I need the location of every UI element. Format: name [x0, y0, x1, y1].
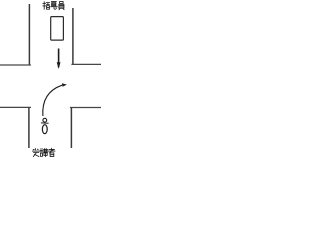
down arrow shaft	[58, 49, 60, 68]
label 受講者 (trainee) bottom text	[32, 148, 55, 156]
person arms crossbar	[41, 122, 49, 124]
road edge bottom-right horizontal line	[70, 107, 101, 109]
person body ellipse	[42, 125, 47, 134]
down arrow head	[57, 62, 61, 69]
road edge top-right vertical line	[72, 8, 74, 64]
road edge top-left horizontal line	[0, 64, 31, 66]
char 員	[59, 2, 64, 10]
road edge bottom-left horizontal line	[0, 106, 31, 108]
char 指	[43, 2, 50, 10]
label 指導員 (instructor) top text	[43, 2, 64, 10]
char 受	[32, 149, 39, 157]
road edge bottom-right vertical line	[70, 108, 72, 149]
road edge top-left vertical line	[28, 4, 30, 65]
curved arrow head	[62, 83, 67, 87]
curved arrow path (trainee walking route)	[43, 85, 62, 116]
person (trainee) head	[43, 118, 47, 122]
char 講	[40, 149, 48, 157]
vehicle rectangle (instructor car)	[51, 17, 64, 40]
char 者	[49, 148, 56, 156]
road edge bottom-left vertical line	[28, 107, 30, 148]
char 導	[51, 2, 58, 10]
road edge top-right horizontal line	[71, 63, 101, 65]
